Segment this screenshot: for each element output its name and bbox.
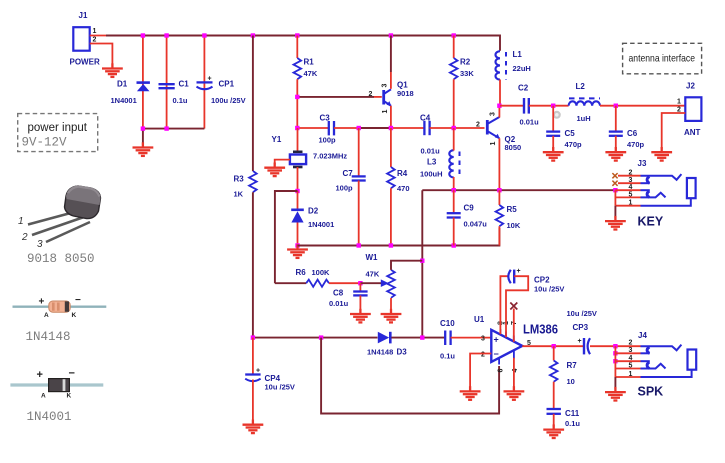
ground D2 (287, 244, 308, 258)
wire L3 top (453, 128, 455, 151)
junction audio feedback (319, 335, 323, 339)
svg-text:C3: C3 (320, 114, 331, 123)
junction rail R2 (452, 33, 456, 37)
svg-text:47K: 47K (304, 69, 318, 78)
svg-text:470: 470 (397, 184, 410, 193)
resistor R1 (294, 58, 318, 80)
resistor R7 (550, 361, 577, 387)
svg-text:10: 10 (567, 377, 575, 386)
svg-text:J2: J2 (686, 82, 695, 91)
svg-text:1N4148: 1N4148 (367, 348, 393, 357)
capacitor CP1 (197, 76, 246, 106)
svg-text:CP1: CP1 (219, 80, 235, 89)
wire crystal case to ground (275, 160, 290, 165)
drawing 1N4148 diode package (13, 295, 107, 319)
svg-text:9V-12V: 9V-12V (22, 136, 68, 150)
svg-text:1: 1 (382, 110, 389, 114)
svg-text:3: 3 (490, 112, 497, 116)
wire L1 bottom to RF node (499, 80, 501, 106)
wire Q1 base (297, 96, 374, 98)
svg-text:8050: 8050 (505, 143, 522, 152)
transistor Q2 (476, 112, 521, 152)
junction rail Q1 collector (389, 33, 393, 37)
svg-text:CP2: CP2 (534, 276, 550, 285)
wire CP4 bottom (252, 380, 254, 422)
ground J2 (651, 147, 672, 161)
junction Q2 emitter key line (497, 188, 501, 192)
wire J2 pin2 to ground (662, 113, 686, 149)
wire CP1 vertical (203, 36, 205, 129)
wire R7 to C11 (553, 382, 555, 409)
wire W1 bottom lead (390, 298, 392, 311)
svg-text:U1: U1 (474, 315, 485, 324)
connector J1 (70, 11, 100, 67)
wire crystal top (297, 128, 299, 152)
wire U1 output pin5 (522, 345, 583, 347)
svg-text:W1: W1 (366, 253, 379, 262)
svg-text:POWER: POWER (70, 58, 100, 67)
junction bus D1 (141, 126, 145, 130)
junction R4 bottom (389, 243, 393, 247)
svg-text:KEY: KEY (638, 215, 664, 229)
svg-text:L3: L3 (427, 158, 437, 167)
junction J4 pin3 (613, 351, 617, 355)
connector J4 SPK jack (613, 331, 696, 399)
transistor Q1 (369, 81, 414, 114)
svg-text:C1: C1 (179, 80, 190, 89)
diode D1 (111, 80, 150, 106)
svg-text:3: 3 (481, 336, 485, 343)
wire R3 vertical from rail (252, 36, 254, 172)
jack J3 barrel (687, 178, 696, 198)
junction L3 key line (452, 188, 456, 192)
artifact gray dot (553, 111, 561, 119)
pin stub U1 pin4 (513, 351, 515, 359)
wire R4 bottom (390, 188, 392, 245)
svg-text:ANT: ANT (684, 128, 701, 137)
svg-text:1N4001: 1N4001 (27, 410, 72, 424)
wire J4 pin1 stub (615, 376, 640, 378)
svg-text:2: 2 (629, 340, 633, 347)
ground U1 pin4 (504, 386, 525, 400)
svg-text:100K: 100K (312, 268, 331, 277)
ground J4 (605, 387, 626, 401)
svg-text:antenna interface: antenna interface (629, 53, 696, 65)
wire W1 top lead (391, 261, 422, 270)
capacitor C9 (447, 204, 488, 229)
svg-text:1uH: 1uH (577, 114, 591, 123)
svg-text:−: − (494, 349, 499, 359)
wire R3 down to audio node (252, 192, 254, 337)
wire +V top rail (106, 36, 500, 51)
svg-text:0.047u: 0.047u (464, 220, 488, 229)
svg-text:+: + (517, 268, 521, 275)
wire R7 top (553, 346, 555, 360)
wire RX branch vertical x422 (421, 190, 423, 337)
svg-text:10u /25V: 10u /25V (265, 383, 295, 392)
wire CP4 top (252, 338, 254, 375)
wire Q2 collector up (498, 106, 500, 118)
wire D3 to C10 (391, 337, 445, 339)
wire Q2 emitter down (498, 138, 500, 190)
svg-text:0.1u: 0.1u (565, 419, 580, 428)
wire J4 pin3 stub (615, 352, 640, 354)
junction RX tap (420, 335, 424, 339)
svg-text:R6: R6 (296, 268, 307, 277)
jack J3 tip switch contact (647, 177, 649, 184)
wire J3 pin tie vertical (614, 190, 616, 206)
junction rail R1 (295, 33, 299, 37)
svg-text:+: + (208, 76, 212, 83)
wire R5 top (498, 190, 500, 205)
wire U1 pin2 to ground (470, 354, 491, 389)
capacitor C6 (609, 106, 645, 149)
svg-text:10u /25V: 10u /25V (567, 309, 597, 318)
inductor L3 (420, 150, 460, 178)
junction L1 C2 Q2 (497, 104, 501, 108)
svg-text:C10: C10 (440, 319, 455, 328)
svg-text:R2: R2 (460, 58, 471, 67)
wire Q1 collector to rail (390, 36, 392, 73)
svg-text:power input: power input (28, 122, 88, 134)
capacitor C5 (546, 106, 582, 149)
junction W1 top branch (420, 259, 424, 263)
svg-text:22uH: 22uH (513, 64, 531, 73)
svg-text:33K: 33K (460, 69, 474, 78)
wire C8 node to W1 wiper (360, 282, 381, 284)
svg-text:Y1: Y1 (272, 135, 282, 144)
wire J3 pin5 stub (615, 196, 640, 198)
jack J3 pin4 blue lead (641, 189, 650, 191)
pin stub U1 pin8 (499, 329, 501, 335)
svg-text:A: A (41, 393, 46, 400)
svg-text:+: + (37, 369, 43, 381)
connector J3 KEY jack (612, 159, 695, 229)
wire J3 pin4 stub (615, 189, 640, 191)
no-connect X pin2 (612, 173, 617, 178)
junction rail CP1 (202, 33, 206, 37)
wire emitter ground bus y245 (298, 228, 500, 246)
drawing 1N4001 diode package (10, 368, 103, 400)
svg-text:4: 4 (512, 369, 519, 373)
wire C7 node to C4 (359, 127, 391, 129)
wire J4 pin tie vertical (614, 346, 616, 377)
dashed box power input (18, 114, 98, 152)
wire L3 bottom (453, 177, 455, 190)
svg-text:C8: C8 (333, 289, 344, 298)
wire C4 to Q2 base (430, 127, 485, 129)
wire node to AF branch left (275, 191, 298, 283)
junction D2 ground node (295, 243, 299, 247)
wire J3 pin2 stub (618, 175, 641, 177)
wire D2 top (297, 191, 299, 209)
wire RF node to C2 (500, 105, 524, 107)
svg-text:L2: L2 (576, 82, 586, 91)
connector J2 (677, 82, 701, 138)
wire U1 pin4 down (513, 358, 515, 388)
svg-text:9018 8050: 9018 8050 (27, 252, 95, 266)
wire J4 pin4 stub (615, 360, 640, 362)
capacitor CP4 (245, 368, 295, 392)
svg-text:100uH: 100uH (420, 170, 443, 179)
wire CP2 to U1 pin1 (506, 276, 528, 337)
ground U1 pin2 (460, 386, 481, 400)
svg-text:100p: 100p (319, 136, 337, 145)
svg-text:1K: 1K (234, 190, 244, 199)
svg-text:J4: J4 (638, 331, 647, 340)
svg-text:J3: J3 (638, 159, 647, 168)
ground W1 (381, 309, 402, 323)
wire U1 pin8 up (500, 276, 508, 334)
wire R2 bottom to base node (453, 79, 455, 128)
ground C8 (350, 309, 371, 323)
svg-text:C5: C5 (565, 129, 576, 138)
wire J4 pin5 stub (615, 368, 640, 370)
jack J4 pin3 blue lead (641, 352, 650, 354)
svg-text:10u /25V: 10u /25V (534, 285, 564, 294)
svg-text:LM386: LM386 (523, 323, 558, 337)
svg-text:C6: C6 (627, 129, 638, 138)
junction C5 (551, 104, 555, 108)
junction osc node R1 line (295, 126, 299, 130)
wire oscillator node y128 (297, 127, 328, 129)
jack J4 ring switch contact (647, 362, 649, 369)
wire R6 row (275, 282, 306, 284)
ground C5 (543, 147, 564, 161)
jack J4 tip contact (641, 345, 682, 351)
wire CP3 to J4 (590, 345, 641, 347)
svg-text:2: 2 (369, 91, 373, 98)
wire J3 ground stem (614, 206, 616, 218)
resistor R6 (296, 268, 331, 287)
svg-text:7.023MHz: 7.023MHz (313, 152, 347, 161)
svg-text:0.1u: 0.1u (440, 352, 455, 361)
pin stub U1 pin6 (498, 358, 500, 365)
jack J4 sleeve wire (641, 370, 692, 377)
resistor R5 (496, 205, 521, 230)
wire key line y190 (422, 189, 615, 191)
junction rail C1 (164, 33, 168, 37)
op-amp U1 (474, 315, 558, 373)
junction R2 C4 L3 (452, 126, 456, 130)
jack J3 tip contact (641, 174, 682, 180)
wire C7 vertical (358, 128, 360, 176)
resistor R4 (387, 167, 409, 193)
svg-text:+: + (256, 368, 260, 375)
svg-text:2: 2 (476, 122, 480, 129)
svg-text:SPK: SPK (638, 385, 664, 399)
svg-text:R5: R5 (507, 205, 518, 214)
jack J4 tip switch contact (647, 347, 649, 353)
junction crystal D2 node (295, 189, 299, 193)
svg-text:C9: C9 (464, 204, 475, 213)
svg-text:1N4001: 1N4001 (111, 96, 137, 105)
wire C1 vertical (166, 36, 168, 129)
wire C9 top (453, 190, 455, 213)
svg-text:0.01u: 0.01u (421, 147, 441, 156)
svg-text:100u /25V: 100u /25V (211, 96, 246, 105)
capacitor C11 (547, 409, 581, 428)
svg-text:D1: D1 (117, 80, 128, 89)
pin stub U1 pin1 (505, 332, 507, 338)
junction C8 (358, 281, 362, 285)
svg-text:1: 1 (93, 28, 97, 35)
dashed box antenna interface (623, 43, 702, 74)
wire crystal bottom (297, 167, 299, 191)
svg-text:R1: R1 (304, 58, 315, 67)
junction rail D1 (141, 33, 145, 37)
svg-text:3: 3 (37, 239, 43, 250)
svg-text:1: 1 (18, 216, 24, 227)
junction R7 (552, 344, 556, 348)
svg-text:3: 3 (382, 84, 389, 88)
svg-text:−: − (75, 295, 81, 306)
wire D2 bottom (297, 223, 299, 246)
svg-text:R7: R7 (567, 361, 578, 370)
wire C11 bottom (553, 414, 555, 427)
wire R2 vertical top (453, 36, 455, 59)
wire J1 pin1 stub (90, 35, 106, 37)
inductor L2 (569, 82, 600, 123)
capacitor CP2 (508, 268, 564, 294)
svg-text:+: + (578, 338, 582, 345)
svg-text:+: + (494, 335, 499, 345)
svg-text:J1: J1 (79, 11, 88, 20)
capacitor C10 (440, 319, 455, 361)
ground CP4 (243, 420, 264, 434)
svg-text:−: − (69, 368, 75, 380)
junction J4 pin2 (613, 344, 617, 348)
svg-text:0.1u: 0.1u (173, 96, 188, 105)
svg-text:K: K (67, 393, 72, 400)
svg-text:1: 1 (677, 99, 681, 106)
svg-text:C11: C11 (565, 409, 580, 418)
junction bus C1 (164, 126, 168, 130)
diode D3 (367, 332, 407, 357)
svg-text:0.01u: 0.01u (520, 118, 540, 127)
capacitor C1 (159, 80, 190, 106)
wire C3 to C7 node (334, 127, 359, 129)
wire J3 pin3 stub (618, 182, 641, 184)
pin stub U1 pin7 (513, 336, 515, 342)
wire J1 pin2 to ground (90, 44, 113, 65)
capacitor C7 (336, 169, 366, 193)
ground J3 (605, 216, 626, 230)
svg-text:0.01u: 0.01u (329, 299, 349, 308)
wire R5 bottom (498, 226, 500, 245)
svg-text:K: K (72, 312, 77, 319)
svg-text:L1: L1 (513, 50, 523, 59)
jack J3 pin3 blue lead (641, 182, 650, 184)
no-connect X pin3 (612, 181, 617, 186)
wire L2 to C6 node and J2 (600, 105, 685, 107)
wire power bottom bus (143, 128, 205, 130)
ground J1 (102, 63, 123, 77)
wire R4 vertical top (390, 128, 392, 167)
capacitor C8 (329, 283, 368, 311)
wire feedback loop (321, 338, 499, 414)
wire C9 bottom (453, 218, 455, 246)
capacitor CP3 (567, 309, 597, 354)
wire R1 bottom to base node (296, 79, 298, 128)
no-connect X U1 pin7 (510, 303, 517, 310)
ground power bus (133, 142, 154, 156)
wire audio line y337 (253, 337, 378, 339)
svg-text:6: 6 (497, 369, 504, 373)
svg-text:R4: R4 (397, 169, 408, 178)
junction C6 (614, 104, 618, 108)
junction C7 bottom (357, 243, 361, 247)
crystal Y1 (272, 135, 348, 167)
jack J3 sleeve wire (641, 199, 691, 206)
svg-text:C2: C2 (518, 84, 529, 93)
wire ground stem below D1 (142, 129, 144, 145)
svg-text:C4: C4 (420, 114, 431, 123)
wire C2 to C5 node (529, 105, 569, 107)
wire R6 to C8 node (329, 282, 360, 284)
svg-text:1: 1 (490, 142, 497, 146)
jack J4 barrel (688, 350, 697, 370)
svg-text:D3: D3 (397, 348, 408, 357)
wire J4 ground stem (614, 377, 616, 389)
svg-text:100p: 100p (336, 184, 354, 193)
svg-text:CP3: CP3 (573, 323, 589, 332)
svg-text:2: 2 (21, 232, 28, 243)
resistor R2 (450, 58, 474, 80)
junction audio R3 CP4 (251, 335, 255, 339)
svg-text:470p: 470p (627, 140, 645, 149)
svg-text:470p: 470p (565, 140, 583, 149)
svg-text:9018: 9018 (397, 89, 414, 98)
ground C6 (605, 147, 626, 161)
svg-text:2: 2 (93, 37, 97, 44)
drawing TO-92 transistor package (18, 186, 101, 250)
wire Q1 emitter down (390, 106, 392, 128)
resistor R3 (234, 171, 257, 199)
jack J3 wiper contact (641, 193, 666, 198)
junction J4 pin4 (613, 359, 617, 363)
svg-text:10K: 10K (507, 221, 521, 230)
junction J3 key line (613, 188, 617, 192)
junction C7 top (357, 126, 361, 130)
potentiometer W1 (366, 253, 395, 298)
wire J3 pin1 stub (615, 205, 640, 207)
svg-text:1N4148: 1N4148 (26, 330, 71, 344)
wire R1 vertical top (296, 36, 298, 59)
inductor L1 (496, 50, 531, 80)
jack J4 pin4 blue lead (641, 360, 650, 362)
wire U1 pin7 stub (513, 309, 515, 342)
svg-text:+: + (39, 297, 45, 308)
junction C9 bottom (452, 243, 456, 247)
wire C10 to U1 pin3 (451, 337, 492, 339)
junction rail R3 (251, 33, 255, 37)
ground crystal (264, 163, 285, 177)
svg-text:1N4001: 1N4001 (308, 220, 334, 229)
svg-text:A: A (44, 312, 49, 319)
jack J4 wiper contact (641, 364, 666, 369)
capacitor C3 (319, 114, 337, 145)
svg-text:D2: D2 (308, 207, 319, 216)
junction Q1 emitter node (389, 126, 393, 130)
svg-text:C7: C7 (343, 169, 354, 178)
diode D2 (291, 207, 334, 230)
jack J3 ring switch contact (647, 191, 649, 197)
capacitor C2 (518, 84, 539, 127)
svg-text:2: 2 (481, 352, 485, 359)
svg-text:R3: R3 (234, 175, 245, 184)
ground C11 (543, 424, 564, 438)
